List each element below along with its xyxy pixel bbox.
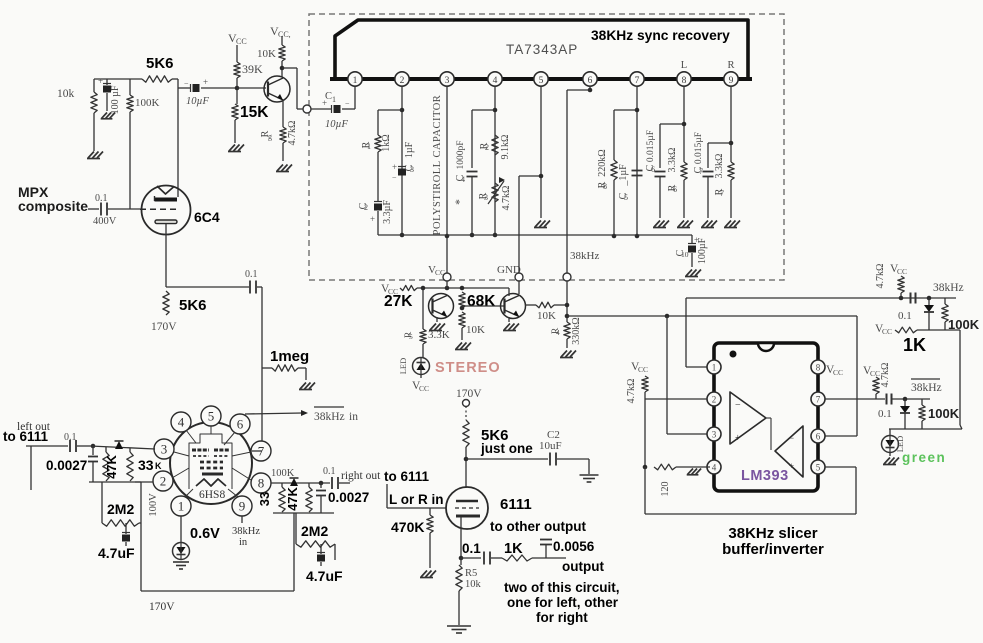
capacitor C2 3.3uF [358, 200, 393, 235]
svg-text:10uF: 10uF [539, 440, 562, 452]
svg-text:1: 1 [178, 499, 185, 514]
wire 38kHz grid column [261, 287, 263, 451]
svg-text:R: R [727, 60, 734, 71]
svg-text:5: 5 [624, 193, 628, 202]
svg-text:170V: 170V [149, 601, 175, 613]
triode 6C4 [140, 186, 191, 235]
ground below R7 [724, 221, 740, 228]
wire threshold loop pin5 [645, 467, 856, 514]
svg-text:330kΩ: 330kΩ [571, 317, 582, 344]
resistor R4 330k [551, 317, 582, 348]
svg-text:2M2: 2M2 [107, 501, 134, 517]
wire pin8 column [682, 86, 687, 162]
tube 6HS8 internal structure [172, 426, 251, 497]
label to 6111 left [3, 429, 49, 444]
svg-text:10K: 10K [257, 48, 276, 60]
wire 38kHz signal to slicer [567, 314, 857, 319]
svg-text:8: 8 [682, 76, 687, 86]
pin 6 6HS8 [230, 414, 250, 434]
label LM393 [741, 468, 789, 484]
wire left module rail [89, 481, 153, 483]
label to other output [490, 519, 586, 534]
svg-text:3: 3 [712, 430, 717, 440]
diode left out [90, 441, 155, 449]
svg-text:15K: 15K [240, 104, 269, 121]
svg-text:170V: 170V [456, 388, 482, 400]
capacitor 0.1 out top [898, 293, 931, 323]
wire right-out to 6111 grid [386, 484, 388, 508]
wire left out [26, 446, 68, 490]
svg-text:output: output [562, 559, 604, 574]
wire VCC feed row [381, 281, 509, 296]
wire left module drop [140, 482, 142, 591]
svg-text:10k: 10k [57, 88, 75, 100]
resistor 5K6 plate 6111 [463, 420, 533, 488]
resistor 15K [232, 104, 269, 143]
svg-text:two of this circuit,: two of this circuit, [504, 580, 620, 595]
LED bias 6HS8 pin1 [173, 543, 190, 560]
svg-text:10K: 10K [466, 324, 485, 336]
label 6111 [500, 496, 532, 513]
IC TA7343AP outline [330, 20, 752, 79]
svg-text:3: 3 [161, 442, 168, 457]
svg-text:−: − [735, 400, 741, 411]
svg-text:R5: R5 [465, 568, 477, 579]
svg-text:CC: CC [870, 369, 880, 378]
capacitor 0.1 right out [323, 466, 350, 489]
svg-text:6: 6 [237, 417, 244, 432]
svg-text:68K: 68K [467, 293, 496, 310]
resistor 5K6 cathode [151, 291, 207, 333]
label TA7343AP [506, 42, 578, 57]
wire cathode down [166, 224, 249, 287]
capacitor C4 1000pF [452, 110, 495, 237]
ground Q1 emitter [429, 324, 445, 331]
resistor 120 ohm pin4 [654, 464, 710, 496]
pin 5 TA7343AP [534, 72, 548, 86]
svg-text:4: 4 [556, 328, 560, 337]
svg-text:4.7uF: 4.7uF [98, 545, 135, 561]
wire LED node [889, 428, 962, 430]
svg-text:CC: CC [882, 327, 892, 336]
resistor 33K right [257, 483, 285, 512]
pin 7 TA7343AP [630, 72, 644, 86]
svg-text:4.7kΩ: 4.7kΩ [287, 121, 298, 146]
tube 6HS8 envelope [170, 422, 252, 504]
svg-text:33: 33 [138, 457, 154, 473]
svg-text:CC: CC [236, 37, 247, 46]
svg-text:CC: CC [833, 368, 843, 377]
resistor R2 9.1k [479, 135, 511, 160]
svg-text:100K: 100K [135, 97, 160, 109]
svg-text:0.1: 0.1 [878, 408, 892, 420]
svg-text:right out: right out [341, 470, 381, 482]
svg-text:+: + [789, 461, 794, 471]
label buffer/inverter [722, 541, 824, 558]
pin 4 LM393 [707, 460, 721, 474]
svg-text:−: − [392, 173, 397, 182]
svg-text:+: + [322, 98, 327, 108]
svg-text:0.0027: 0.0027 [46, 458, 87, 473]
label green [902, 450, 946, 465]
resistor 1meg [262, 348, 309, 380]
capacitor 0.1 left out [64, 432, 95, 452]
label MPX composite [18, 184, 88, 214]
svg-text:_1µF: _1µF [618, 164, 629, 187]
svg-text:3.3K: 3.3K [428, 329, 450, 341]
svg-text:6: 6 [816, 432, 821, 442]
junction base node [235, 86, 240, 91]
ground below C7 [701, 221, 717, 228]
svg-text:L or R in: L or R in [389, 492, 444, 507]
svg-text:38kHz: 38kHz [570, 250, 599, 262]
svg-text:100 µF: 100 µF [110, 85, 121, 114]
pin 1 TA7343AP [348, 72, 362, 86]
resistor 470K grid leak [387, 508, 446, 568]
LED stereo [398, 358, 430, 375]
svg-text:5: 5 [409, 332, 413, 341]
svg-text:3.3kΩ: 3.3kΩ [667, 148, 678, 173]
ground Q2 emitter [503, 324, 519, 331]
diode right out [290, 478, 299, 486]
svg-text:9.1kΩ: 9.1kΩ [500, 135, 511, 160]
wire cathode 6111 [459, 517, 464, 560]
pin 5 6HS8 [201, 406, 221, 426]
label 38kHz-bar out [911, 379, 942, 394]
capacitor 10uF coupling [178, 77, 235, 107]
svg-text:38KHz sync recovery: 38KHz sync recovery [591, 28, 730, 43]
label two of this circuit [504, 580, 620, 595]
svg-text:green: green [902, 450, 946, 465]
svg-text:6: 6 [588, 76, 593, 86]
wire pin5 column [540, 86, 542, 218]
wire pin2 node [643, 399, 707, 469]
svg-text:STEREO: STEREO [435, 360, 501, 376]
capacitor 0.0056 [540, 539, 604, 574]
pin 8 6HS8 [251, 473, 271, 493]
transistor stereo-switch Q1 [421, 286, 454, 329]
svg-text:POLYSTIROLL CAPACITOR: POLYSTIROLL CAPACITOR [432, 95, 443, 236]
label 100K right module [271, 468, 295, 479]
svg-text:in: in [239, 537, 248, 548]
svg-text:g: g [268, 132, 272, 141]
wire pin9 stub [232, 516, 260, 548]
svg-text:*: * [452, 199, 466, 205]
svg-text:just one: just one [480, 441, 533, 456]
capacitor C1 10uF [311, 86, 355, 130]
svg-text:7: 7 [635, 76, 640, 86]
resistor 10K below 68K [459, 312, 485, 340]
ground below Rg [276, 165, 292, 172]
svg-text:for right: for right [536, 610, 588, 625]
svg-text:6C4: 6C4 [194, 209, 220, 225]
resistor 47K right [285, 483, 312, 512]
svg-text:5: 5 [208, 409, 215, 424]
svg-text:2: 2 [485, 143, 489, 152]
wire threshold rail [960, 330, 962, 429]
comparator B triangle [766, 418, 803, 477]
resistor 4.7k pullup 38kHz-bar out [863, 363, 891, 399]
ground below 100uF [101, 113, 115, 119]
label 100V pin2 [148, 493, 159, 517]
resistor R8 220k [597, 110, 637, 238]
svg-text:−: − [789, 433, 794, 443]
capacitor 0.0027 right [316, 483, 369, 513]
resistor 2M2 right [296, 513, 335, 547]
transistor stereo-switch Q2 [501, 281, 526, 322]
wire pin8 out [271, 481, 330, 486]
resistor 10k [57, 79, 97, 151]
svg-text:LM393: LM393 [741, 468, 789, 484]
label to 6111 right [384, 469, 430, 484]
resistor R7 3.3k [714, 154, 734, 218]
svg-text:+: + [392, 162, 397, 172]
wire pin3 VCC column [445, 86, 450, 273]
resistor 4.7k pullup pin2 [626, 361, 648, 403]
svg-text:9: 9 [239, 499, 246, 514]
terminal GND [497, 174, 543, 281]
terminal VCC [428, 264, 451, 281]
wire 170V dotted feed [465, 406, 467, 420]
pin 2 6HS8 [153, 471, 173, 491]
pin 3 LM393 [707, 427, 721, 441]
svg-text:1000pF: 1000pF [456, 140, 466, 169]
svg-text:−: − [345, 99, 350, 108]
label right out [341, 470, 381, 482]
node VCC label (39K top) [228, 31, 247, 46]
pin 5 LM393 [811, 460, 825, 474]
capacitor 4.7uF right [306, 544, 343, 584]
svg-text:4: 4 [712, 463, 717, 473]
resistor 4.7k pullup 38kHz out [875, 263, 907, 300]
svg-text:0.0027: 0.0027 [328, 490, 369, 505]
wire output pin1 rail [686, 298, 956, 367]
ground below C6 [653, 221, 669, 228]
svg-text:47K: 47K [104, 454, 119, 478]
svg-text:2: 2 [364, 203, 368, 212]
wire plate column [177, 79, 179, 197]
label one for left other [507, 595, 619, 610]
terminal 170V [456, 388, 482, 407]
resistor 1K output [502, 541, 566, 561]
svg-text:0.015µF: 0.015µF [694, 132, 704, 164]
capacitor C2 10uF output [466, 429, 589, 474]
svg-text:to other output: to other output [490, 519, 586, 534]
svg-text:1: 1 [332, 95, 336, 104]
ground below R5 10k [447, 626, 471, 633]
svg-text:470K: 470K [391, 519, 424, 535]
svg-text:1: 1 [367, 142, 371, 151]
ground below green LED [883, 453, 899, 465]
svg-text:0.1: 0.1 [64, 432, 77, 443]
pin 2 LM393 [707, 392, 721, 406]
svg-text:1µF: 1µF [404, 141, 415, 158]
svg-text:8: 8 [258, 476, 265, 491]
pin 9 6HS8 [232, 496, 252, 516]
ground below R6 [677, 221, 693, 228]
svg-text:10k: 10k [465, 579, 482, 590]
svg-text:L: L [681, 60, 687, 71]
svg-text:3: 3 [410, 165, 414, 174]
svg-text:0.1: 0.1 [95, 193, 108, 204]
pin 1 LM393 [707, 360, 721, 374]
svg-text:47K: 47K [285, 486, 300, 510]
svg-text:27K: 27K [384, 293, 413, 310]
svg-text:5: 5 [539, 76, 544, 86]
ground below 1meg [299, 383, 315, 390]
svg-text:+: + [735, 433, 741, 444]
svg-text:+: + [98, 76, 103, 86]
pin 1 6HS8 [171, 496, 191, 516]
svg-text:4.7uF: 4.7uF [306, 568, 343, 584]
pin 7 LM393 [811, 392, 825, 406]
svg-text:K: K [155, 461, 162, 471]
svg-text:CC: CC [419, 384, 429, 393]
svg-text:10: 10 [681, 250, 689, 259]
svg-text:6111: 6111 [500, 496, 532, 513]
pin 8 TA7343AP [677, 72, 691, 86]
label 38kHz out [933, 282, 964, 294]
svg-text:4.7kΩ: 4.7kΩ [626, 379, 637, 404]
svg-text:0.015µF: 0.015µF [646, 130, 656, 162]
pin 4 TA7343AP [488, 72, 502, 86]
svg-text:38KHz slicer: 38KHz slicer [728, 525, 817, 542]
ground below C2 [580, 475, 599, 482]
label STEREO [435, 360, 501, 376]
svg-text:to 6111: to 6111 [384, 469, 430, 484]
svg-text:composite: composite [18, 198, 88, 214]
wire base row [237, 87, 266, 89]
wire pin6 38kHz takeoff [567, 86, 592, 273]
label 10K (collector) [257, 48, 276, 60]
wire top-left supply bus [94, 78, 178, 80]
resistor R5 3.3K [404, 329, 450, 358]
svg-text:CC,: CC, [278, 30, 291, 39]
wire pin7 column [635, 86, 640, 238]
svg-text:7: 7 [816, 395, 821, 405]
capacitor C5 1uF [618, 164, 643, 202]
svg-text:3.3kΩ: 3.3kΩ [714, 154, 725, 179]
svg-text:39K: 39K [242, 62, 263, 76]
pin 2 TA7343AP [395, 72, 409, 86]
svg-text:LED: LED [398, 358, 408, 375]
capacitor 4.7uF left [98, 523, 135, 561]
svg-text:33: 33 [257, 492, 272, 506]
resistor 2M2 left [102, 482, 141, 526]
pin 6 TA7343AP [583, 72, 597, 86]
svg-text:1: 1 [353, 76, 358, 86]
label 68K [467, 293, 496, 310]
label 38KHz slicer [728, 525, 817, 542]
wire 100K to grid node [129, 112, 131, 209]
svg-text:0.1: 0.1 [462, 541, 481, 556]
capacitor 0.1 400V input [88, 193, 141, 227]
svg-text:38kHz: 38kHz [911, 382, 942, 394]
svg-text:1kΩ: 1kΩ [381, 134, 392, 151]
svg-text:1K: 1K [504, 541, 523, 557]
triode 6111 [446, 487, 488, 529]
capacitor 100uF decoupling [98, 76, 121, 114]
pin 9 TA7343AP [724, 72, 738, 86]
svg-text:100µF: 100µF [697, 237, 708, 264]
ground pin5 [534, 221, 550, 228]
ground near pin4 [687, 469, 701, 475]
diode clamp bottom [900, 399, 910, 429]
svg-text:4.7kΩ: 4.7kΩ [875, 264, 886, 289]
resistor 68K vertical [459, 292, 505, 310]
resistor Rg 4.7k emitter [260, 100, 298, 161]
svg-text:220kΩ: 220kΩ [597, 149, 608, 176]
svg-text:400V: 400V [93, 216, 117, 227]
svg-text:10µF: 10µF [186, 96, 210, 107]
svg-text:−: − [184, 79, 189, 88]
wire pin9 column [729, 86, 734, 162]
svg-text:4.7kΩ: 4.7kΩ [880, 363, 891, 388]
svg-text:5: 5 [816, 463, 821, 473]
diode clamp top [924, 298, 934, 330]
capacitor 0.1 out bottom [878, 394, 930, 421]
svg-text:2: 2 [160, 474, 167, 489]
wire pin7 grid from 0.1 [252, 450, 262, 452]
resistor R3 4.7k variable [478, 177, 512, 210]
label 0.6V [190, 526, 220, 542]
svg-text:CC: CC [638, 365, 648, 374]
svg-text:10µF: 10µF [325, 119, 349, 130]
resistor R5 10k 6111 [456, 558, 482, 625]
svg-text:120: 120 [660, 482, 671, 497]
svg-text:CC: CC [897, 267, 907, 276]
svg-text:2: 2 [712, 395, 717, 405]
svg-text:3: 3 [484, 193, 488, 202]
svg-text:to 6111: to 6111 [3, 429, 49, 444]
svg-text:buffer/inverter: buffer/inverter [722, 541, 824, 558]
svg-text:+: + [370, 214, 375, 224]
label VCC below LED [412, 375, 429, 394]
svg-text:38kHz: 38kHz [232, 526, 260, 537]
svg-text:0.0056: 0.0056 [553, 539, 595, 554]
node VCC2 label [270, 24, 291, 39]
wire to LM393 pin3 [667, 316, 707, 434]
LED green indicator [882, 429, 906, 453]
svg-text:8: 8 [816, 363, 821, 373]
transistor Q buffer (left) [264, 76, 290, 102]
capacitor 0.1 cathode coupling [245, 269, 262, 294]
wire 170V bottom bus [141, 591, 294, 613]
resistor 10K collector [279, 36, 285, 77]
svg-text:1K: 1K [903, 335, 926, 355]
capacitor C6 0.015uF [645, 124, 684, 218]
label L pin8 [681, 60, 687, 71]
resistor 39K [234, 45, 263, 104]
svg-text:TA7343AP: TA7343AP [506, 42, 578, 57]
ground below pin1 LED [173, 562, 189, 569]
svg-text:1: 1 [712, 363, 717, 373]
op-amp comparator LM393 package [714, 343, 818, 491]
input terminal to C1 [303, 105, 311, 113]
svg-text:+: + [203, 77, 208, 87]
resistor 100K bottom [919, 399, 960, 429]
ground below R4 [560, 351, 576, 358]
capacitor C7 0.015uF [693, 132, 731, 218]
svg-text:38kHz: 38kHz [314, 411, 345, 423]
svg-text:5K6: 5K6 [146, 55, 174, 72]
label left out [17, 421, 51, 433]
pin 6 LM393 [811, 429, 825, 443]
svg-text:9: 9 [729, 76, 734, 86]
ground below C10 [685, 270, 701, 277]
svg-text:170V: 170V [151, 321, 177, 333]
ground below 10K [455, 343, 471, 350]
